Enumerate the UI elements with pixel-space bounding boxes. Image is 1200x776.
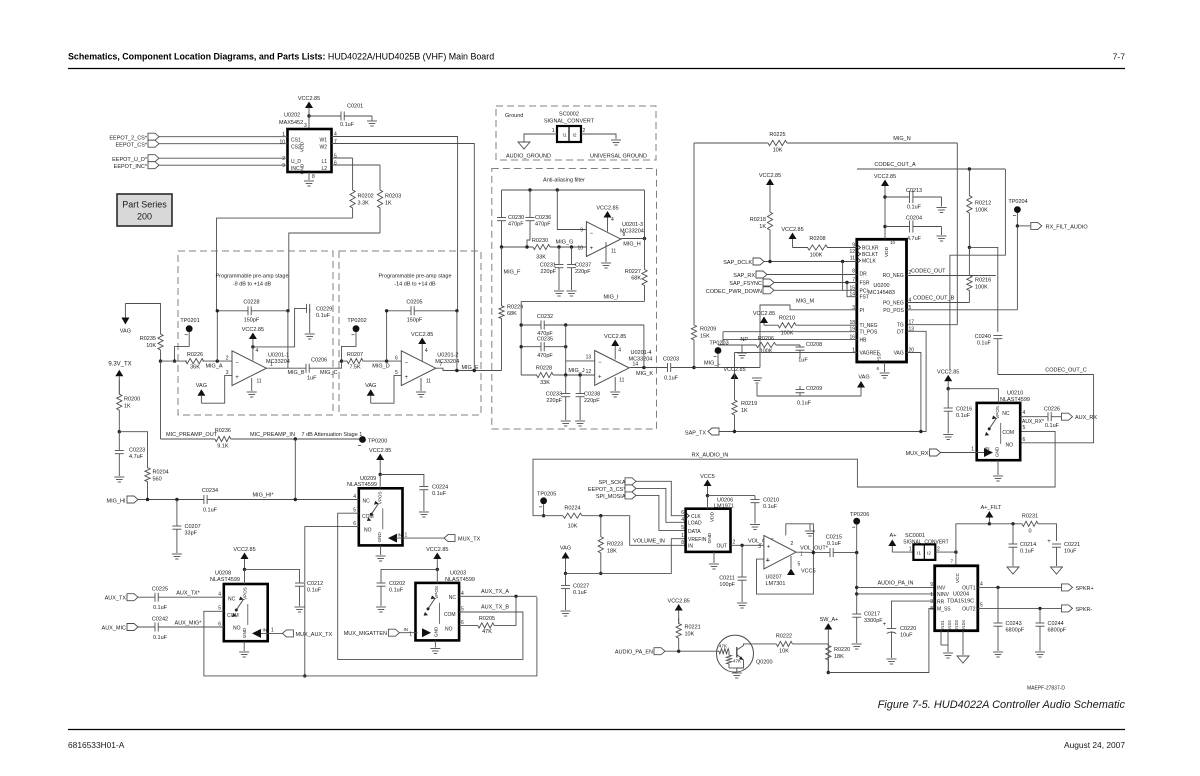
svg-text:560: 560	[153, 477, 162, 483]
svg-text:GND4: GND4	[961, 620, 966, 632]
capacitor C0207	[176, 500, 178, 527]
capacitor C0234	[203, 495, 205, 504]
svg-text:10: 10	[577, 246, 583, 252]
svg-text:200: 200	[137, 212, 152, 222]
svg-text:CODEC_OUT: CODEC_OUT	[911, 269, 946, 275]
svg-text:VREFIN: VREFIN	[688, 537, 707, 543]
svg-text:1K: 1K	[124, 404, 131, 410]
svg-text:MIG_HI*: MIG_HI*	[252, 492, 274, 498]
svg-text:5: 5	[980, 603, 983, 609]
svg-text:EEPOT_INC*: EEPOT_INC*	[114, 164, 148, 170]
svg-text:C0202: C0202	[389, 581, 405, 587]
node dot MCLK branch	[841, 260, 844, 263]
wire VAG rail to VREFIN	[566, 539, 686, 574]
wire CODEC_OUT_C	[998, 374, 1094, 376]
node dot wire1	[564, 323, 567, 326]
svg-text:VCC2.85: VCC2.85	[937, 369, 959, 375]
svg-text:3300pF: 3300pF	[864, 618, 883, 624]
node dot FSR branch	[845, 281, 848, 284]
svg-text:NLAST4599: NLAST4599	[347, 482, 377, 488]
svg-text:5: 5	[681, 525, 684, 531]
svg-text:0.1uF: 0.1uF	[1020, 549, 1035, 555]
ground pin11 filter top	[605, 242, 607, 262]
svg-text:VCC2.85: VCC2.85	[426, 547, 448, 553]
U0204 grounds	[947, 631, 949, 652]
node dot U0202 VDD	[307, 114, 310, 117]
wire EEPOT_INC to INC	[159, 164, 288, 166]
wire DT loop	[907, 331, 927, 431]
node dot OUT2	[1038, 607, 1041, 610]
svg-text:33K: 33K	[540, 380, 550, 386]
svg-text:220pF: 220pF	[575, 269, 591, 275]
wire to R0224	[533, 515, 563, 517]
svg-text:1uF: 1uF	[307, 376, 317, 382]
svg-text:6800pF: 6800pF	[1006, 628, 1025, 634]
svg-text:4: 4	[618, 348, 621, 354]
svg-text:4: 4	[218, 592, 221, 598]
svg-text:0.1uF: 0.1uF	[573, 590, 588, 596]
svg-text:M_SS: M_SS	[937, 607, 951, 613]
resistor R0216	[967, 247, 972, 302]
wire to C0202	[381, 569, 437, 583]
svg-text:0.1uF: 0.1uF	[153, 605, 168, 611]
U0209 COM routing to U0203	[338, 513, 523, 659]
svg-text:W1: W1	[320, 138, 328, 144]
svg-text:VCC2.85: VCC2.85	[242, 327, 264, 333]
svg-text:SC0001: SC0001	[905, 533, 925, 539]
svg-text:CODEC_OUT_B: CODEC_OUT_B	[913, 296, 955, 302]
ground at C0213	[937, 207, 947, 209]
svg-text:PO_NEG: PO_NEG	[883, 301, 904, 307]
wire MIC preamp out rail	[160, 361, 162, 439]
capacitor C0233	[565, 375, 567, 394]
svg-text:SW_A+: SW_A+	[820, 617, 839, 623]
wire to C0224	[380, 475, 424, 487]
svg-text:SAP_TX: SAP_TX	[685, 430, 706, 436]
volume IC U0206 box	[686, 509, 731, 552]
svg-text:C0220: C0220	[900, 626, 916, 632]
svg-text:2: 2	[282, 156, 285, 162]
svg-text:R0222: R0222	[776, 634, 792, 640]
svg-text:5: 5	[334, 154, 337, 160]
resistor R0226	[186, 359, 204, 364]
svg-text:C0242: C0242	[152, 617, 168, 623]
resistor R0202	[350, 158, 355, 218]
wire NINV	[857, 593, 935, 595]
svg-text:MIG_A: MIG_A	[205, 364, 222, 370]
svg-text:6816533H01-A: 6816533H01-A	[68, 740, 125, 750]
wire EEPOT_CS to CS2	[159, 143, 288, 145]
svg-text:OUT2: OUT2	[962, 607, 976, 613]
svg-text:7-7: 7-7	[1113, 52, 1126, 62]
pin9 tap vertical	[557, 190, 586, 230]
vertical tie TI_POS HB R0206	[722, 332, 724, 345]
svg-text:Figure 7-5. HUD4022A Controlle: Figure 7-5. HUD4022A Controller Audio Sc…	[878, 699, 1126, 711]
svg-text:MUX_TX: MUX_TX	[458, 537, 481, 543]
svg-text:2: 2	[583, 128, 586, 134]
svg-text:VDD: VDD	[884, 246, 890, 257]
ground under C0210	[750, 524, 760, 526]
svg-text:18K: 18K	[607, 549, 617, 555]
svg-text:MC33204: MC33204	[629, 357, 653, 363]
svg-text:4.7uF: 4.7uF	[129, 454, 144, 460]
ground under C0207	[172, 553, 182, 555]
wire AUX_TX_B	[459, 611, 523, 613]
capacitor C0209 and VAG	[752, 377, 762, 379]
svg-text:SPI_SCKA: SPI_SCKA	[599, 480, 626, 486]
svg-text:NINV: NINV	[937, 592, 950, 598]
ground pin11 stage2	[420, 378, 422, 391]
svg-text:SPI_MOSIA: SPI_MOSIA	[596, 494, 626, 500]
svg-text:470pF: 470pF	[535, 222, 551, 228]
svg-text:10uF: 10uF	[1064, 549, 1077, 555]
svg-text:4: 4	[681, 517, 684, 523]
node dot U0208 vcc	[243, 568, 246, 571]
output connector SPKR+	[1062, 584, 1073, 591]
svg-text:L2: L2	[321, 166, 327, 172]
svg-text:C0210: C0210	[763, 498, 779, 504]
svg-text:47K: 47K	[719, 644, 727, 649]
svg-text:1: 1	[909, 547, 912, 553]
capacitor C0229	[306, 304, 308, 313]
ground under C0223	[114, 476, 124, 478]
svg-text:C0212: C0212	[307, 581, 323, 587]
op IC U0202 MAX5452 box	[288, 129, 332, 172]
U0208 IN arrow	[252, 629, 261, 638]
capacitor C0203	[667, 363, 669, 372]
resistor R0236	[215, 436, 231, 441]
node dot C0214	[1011, 522, 1014, 525]
svg-text:+: +	[235, 375, 239, 381]
svg-text:INV: INV	[937, 586, 946, 592]
svg-text:5: 5	[798, 562, 801, 568]
svg-text:100K: 100K	[810, 253, 823, 259]
svg-text:VCC5: VCC5	[801, 569, 816, 575]
wire divider to C0240 column	[969, 247, 997, 332]
capacitor C0216	[947, 389, 949, 408]
resistor R0221	[676, 618, 681, 651]
svg-text:C0232: C0232	[537, 314, 553, 320]
resistor R0227	[642, 239, 647, 302]
svg-text:C0225: C0225	[152, 587, 168, 593]
U0207 feedback loop	[786, 524, 814, 553]
wire R0205 to AUX_TX_A	[494, 596, 516, 625]
dashed box programmable pre-amp stage 1	[178, 251, 333, 415]
resistor R0200	[117, 380, 122, 432]
svg-text:3: 3	[304, 123, 307, 129]
test point TP0201	[186, 325, 193, 332]
svg-text:47K: 47K	[482, 629, 492, 635]
svg-text:EEPOT_CS*: EEPOT_CS*	[116, 142, 148, 148]
svg-text:U0201-4: U0201-4	[631, 350, 652, 356]
ground under C0211	[737, 602, 747, 604]
svg-text:C0234: C0234	[202, 488, 218, 494]
audio PA vertical	[856, 553, 858, 614]
svg-text:33K: 33K	[536, 255, 546, 261]
wire EEPOT_U_D to U_D	[159, 157, 288, 159]
svg-text:1K: 1K	[759, 224, 766, 230]
svg-text:11: 11	[611, 249, 616, 255]
node dots MIC_J	[564, 373, 567, 376]
wire W1 to stage2 feedback	[332, 137, 458, 311]
resistor R0231	[989, 523, 1020, 525]
dashed box anti-aliasing filter	[492, 169, 657, 430]
switch contacts	[989, 418, 996, 429]
switch contacts	[371, 504, 378, 515]
wire CODEC_OUT_A	[857, 168, 1005, 170]
svg-text:C0238: C0238	[584, 392, 600, 398]
ground under C0212	[295, 606, 305, 608]
resistor R0224	[563, 513, 582, 518]
svg-text:C0228: C0228	[243, 300, 259, 306]
wire to C0212	[245, 569, 300, 583]
svg-text:6: 6	[334, 161, 337, 167]
svg-text:NO: NO	[1006, 443, 1014, 449]
node dot VCC5	[706, 494, 709, 497]
svg-text:LM7301: LM7301	[766, 581, 786, 587]
svg-text:R0235: R0235	[140, 336, 156, 342]
ground at C0201	[367, 120, 377, 122]
svg-text:MAX5452: MAX5452	[279, 120, 303, 126]
svg-text:11: 11	[426, 379, 431, 385]
wire W2 to stage2 output	[332, 144, 475, 371]
svg-text:2: 2	[226, 356, 229, 362]
svg-text:13: 13	[586, 355, 592, 361]
ground under U0202	[308, 172, 310, 180]
svg-text:Programmable pre-amp stage: Programmable pre-amp stage	[378, 274, 451, 280]
capacitor C0228	[247, 306, 249, 315]
filter top output wire MIC_H	[621, 238, 645, 240]
svg-text:PO_POS: PO_POS	[883, 308, 904, 314]
svg-text:I1: I1	[563, 133, 567, 139]
node dots PA taps	[855, 586, 858, 589]
node dot TP0201 tap	[173, 359, 176, 362]
svg-text:CODEC_OUT_C: CODEC_OUT_C	[1045, 367, 1087, 373]
wire C0229 to ground	[309, 308, 311, 333]
svg-text:1: 1	[971, 447, 974, 453]
svg-text:Anti-aliasing filter: Anti-aliasing filter	[543, 178, 585, 184]
OUT1 wire to SPKR+	[978, 586, 1061, 588]
svg-text:C0227: C0227	[573, 584, 589, 590]
resistor R0230	[533, 244, 550, 249]
capacitor C0230 branch	[501, 190, 503, 218]
svg-text:CLK: CLK	[691, 514, 701, 520]
wire down to U0209 NC	[295, 439, 359, 500]
node dots MIC_HI wire	[146, 498, 149, 501]
wire VAG pin loop	[907, 353, 921, 432]
wire VAG feed to R0235	[125, 304, 160, 332]
svg-text:U0209: U0209	[360, 476, 376, 482]
svg-text:MIG_C: MIG_C	[320, 370, 337, 376]
svg-text:MAEPF-27837-D: MAEPF-27837-D	[1027, 686, 1065, 692]
svg-text:11: 11	[850, 256, 855, 262]
svg-text:9: 9	[930, 582, 933, 588]
svg-text:W2: W2	[320, 145, 328, 151]
resistor R0228	[521, 372, 553, 377]
svg-text:33pF: 33pF	[185, 531, 198, 537]
svg-text:IN: IN	[263, 628, 268, 633]
resistor R0205	[459, 624, 478, 626]
svg-text:R0230: R0230	[532, 238, 548, 244]
svg-text:MUX_RX: MUX_RX	[906, 451, 929, 457]
svg-text:C0221: C0221	[1064, 542, 1080, 548]
input connector MUX_AUX_TX	[261, 632, 282, 634]
svg-text:VCC2.85: VCC2.85	[874, 174, 896, 180]
wire down to U0210 NO	[1020, 375, 1093, 443]
svg-text:MC33204: MC33204	[266, 359, 290, 365]
node dots top rail	[528, 188, 531, 191]
svg-text:15K: 15K	[700, 334, 710, 340]
svg-text:+: +	[590, 246, 594, 252]
svg-text:AUDIO_PA_IN: AUDIO_PA_IN	[878, 580, 914, 586]
svg-text:+: +	[1047, 539, 1051, 545]
node dot stage1 vcc	[251, 345, 254, 348]
node dot stage2 inverting	[385, 359, 388, 362]
node dot PA_EN	[677, 650, 680, 653]
svg-text:U0200: U0200	[873, 283, 889, 289]
svg-text:VAG: VAG	[560, 546, 571, 552]
svg-text:LOAD: LOAD	[688, 521, 702, 527]
svg-text:7.5K: 7.5K	[349, 365, 361, 371]
ground under U0203	[434, 640, 436, 647]
wire to R0204	[119, 432, 147, 460]
svg-text:150pF: 150pF	[244, 318, 260, 324]
op-amp U0201-4	[595, 351, 629, 386]
svg-text:Ground: Ground	[505, 113, 523, 119]
svg-text:I2: I2	[573, 133, 577, 139]
svg-text:36K: 36K	[190, 365, 200, 371]
ground small at R0206	[741, 345, 743, 352]
capacitor C0217	[852, 613, 861, 615]
svg-text:MIG_D: MIG_D	[372, 364, 389, 370]
svg-text:R0216: R0216	[975, 278, 991, 284]
svg-text:9: 9	[580, 228, 583, 234]
svg-text:R0207: R0207	[347, 352, 363, 358]
stage2 output wire MIC_E	[436, 368, 502, 370]
svg-text:VCC2.85: VCC2.85	[596, 206, 618, 212]
TI_POS wire	[723, 331, 857, 333]
svg-text:VCC2.85: VCC2.85	[411, 332, 433, 338]
svg-text:FST: FST	[860, 295, 869, 301]
earth ground under C0221	[1051, 567, 1063, 574]
capacitor C0224	[419, 486, 428, 488]
svg-text:VCC2.85: VCC2.85	[759, 173, 781, 179]
wire L1 via R0202	[332, 157, 353, 159]
svg-text:GND: GND	[242, 627, 247, 638]
svg-text:TP0201: TP0201	[180, 318, 199, 324]
node dot MIC_E	[455, 369, 458, 372]
test point TP0203	[715, 347, 722, 354]
svg-text:C0224: C0224	[432, 485, 448, 491]
svg-text:3: 3	[852, 305, 855, 311]
svg-text:0.1uF: 0.1uF	[797, 401, 812, 407]
svg-text:4: 4	[766, 558, 769, 564]
svg-text:100K: 100K	[975, 208, 988, 214]
capacitor C0201	[340, 112, 342, 121]
svg-text:0.1uF: 0.1uF	[389, 588, 404, 594]
svg-text:VAG: VAG	[365, 383, 376, 389]
header rule	[68, 68, 1125, 70]
svg-text:8: 8	[681, 540, 684, 546]
svg-text:220pF: 220pF	[540, 269, 556, 275]
svg-text:100K: 100K	[760, 349, 773, 355]
svg-text:COM: COM	[1002, 430, 1014, 436]
output vertical to wire1	[643, 325, 645, 368]
svg-text:Q0200: Q0200	[756, 660, 773, 666]
resistor R0223	[598, 516, 603, 574]
node dot divider mid	[968, 246, 971, 249]
svg-text:+: +	[405, 375, 409, 381]
svg-text:3: 3	[758, 544, 761, 550]
svg-text:VAG: VAG	[858, 375, 869, 381]
wire MIC_I	[521, 300, 644, 302]
analog switch U0209 box	[359, 488, 403, 545]
svg-text:C0205: C0205	[406, 300, 422, 306]
svg-text:C0208: C0208	[806, 342, 822, 348]
capacitor C0227	[565, 573, 567, 585]
svg-text:R0218: R0218	[750, 217, 766, 223]
svg-text:U0201-1: U0201-1	[268, 353, 289, 359]
node dot MIC_K	[642, 366, 645, 369]
svg-text:VPOS: VPOS	[377, 491, 382, 504]
svg-text:VAG: VAG	[120, 329, 131, 335]
svg-text:10: 10	[279, 140, 285, 146]
svg-text:MIG_B: MIG_B	[287, 370, 304, 376]
svg-text:IN: IN	[404, 627, 409, 632]
earth ground under C0214	[1007, 567, 1019, 574]
ground under C0237	[567, 290, 577, 292]
switch contacts	[428, 598, 435, 609]
svg-text:R0212: R0212	[975, 201, 991, 207]
capacitor C0215	[829, 548, 831, 557]
node dot MIC_A rail	[159, 359, 162, 362]
svg-text:TP0206: TP0206	[850, 512, 869, 518]
node dot preamp tap	[294, 498, 297, 501]
svg-text:5: 5	[218, 606, 221, 612]
wire L2 via R0203	[332, 164, 381, 166]
vertical MIC_N to MIC_L with R0209	[691, 143, 696, 368]
ground pin11 stage1	[251, 378, 253, 391]
node dot AUX_TX_A	[514, 595, 517, 598]
ground under C0224	[419, 511, 429, 513]
svg-text:C0213: C0213	[906, 188, 922, 194]
svg-text:TP0200: TP0200	[368, 439, 387, 445]
wire MIC_C to stage2	[309, 361, 341, 368]
svg-text:Schematics, Component Location: Schematics, Component Location Diagrams,…	[68, 52, 494, 62]
svg-text:R0221: R0221	[685, 625, 701, 631]
svg-text:8: 8	[930, 606, 933, 612]
svg-text:TP0203: TP0203	[709, 341, 728, 347]
svg-text:C0201: C0201	[347, 104, 363, 110]
svg-text:VDD: VDD	[300, 141, 306, 152]
svg-text:1: 1	[930, 592, 933, 598]
svg-text:AUX_TX*: AUX_TX*	[176, 591, 200, 597]
svg-text:3.3K: 3.3K	[358, 201, 370, 207]
ground under C0217	[852, 643, 862, 645]
svg-text:GND: GND	[995, 446, 1000, 457]
svg-text:−: −	[235, 361, 239, 367]
switch contacts	[236, 600, 243, 611]
svg-text:VCC2.85: VCC2.85	[233, 547, 255, 553]
wire R0224 to volume in	[582, 516, 686, 546]
svg-text:NP: NP	[740, 337, 748, 343]
svg-text:NC: NC	[228, 596, 236, 602]
svg-text:HB: HB	[860, 337, 868, 343]
svg-text:TI_NEG: TI_NEG	[860, 323, 878, 329]
VAGREF wire and R0219	[735, 352, 857, 354]
svg-text:R0224: R0224	[564, 506, 580, 512]
svg-text:U0201-3: U0201-3	[622, 222, 643, 228]
